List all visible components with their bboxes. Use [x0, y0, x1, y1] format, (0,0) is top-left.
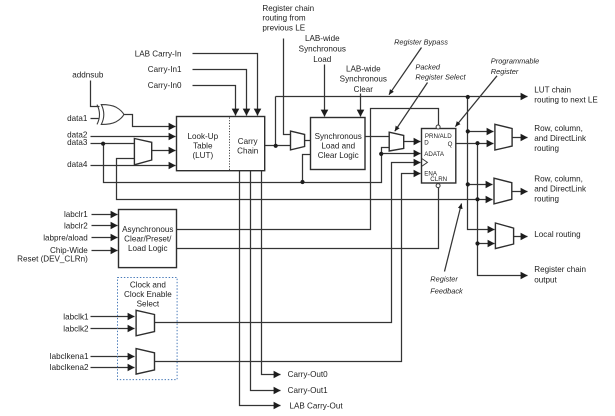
svg-text:Feedback: Feedback — [430, 286, 463, 295]
svg-text:LAB-wide: LAB-wide — [346, 64, 381, 73]
svg-text:LAB-wide: LAB-wide — [305, 34, 340, 43]
svg-text:Table: Table — [193, 142, 213, 151]
svg-text:labclk2: labclk2 — [63, 324, 89, 333]
svg-text:data1: data1 — [67, 114, 88, 123]
svg-text:routing: routing — [534, 195, 559, 204]
svg-text:routing from: routing from — [262, 14, 305, 23]
svg-text:Packed: Packed — [415, 63, 441, 72]
svg-text:LAB Carry-In: LAB Carry-In — [135, 49, 182, 58]
svg-text:Chip-Wide: Chip-Wide — [50, 246, 88, 255]
svg-text:LUT chain: LUT chain — [534, 86, 571, 95]
svg-text:addnsub: addnsub — [72, 71, 104, 80]
svg-text:Synchronous: Synchronous — [315, 132, 362, 141]
svg-text:routing to next LE: routing to next LE — [534, 96, 598, 105]
svg-text:Register: Register — [430, 274, 458, 283]
svg-text:Row, column,: Row, column, — [534, 124, 583, 133]
svg-text:data4: data4 — [67, 160, 88, 169]
svg-text:labclr2: labclr2 — [64, 222, 88, 231]
svg-text:Clear/Preset/: Clear/Preset/ — [124, 234, 172, 243]
svg-text:Look-Up: Look-Up — [188, 132, 219, 141]
svg-text:Synchronous: Synchronous — [340, 75, 387, 84]
svg-text:Clock and: Clock and — [130, 280, 166, 289]
svg-text:Register Bypass: Register Bypass — [394, 38, 448, 47]
svg-text:LAB Carry-Out: LAB Carry-Out — [290, 401, 344, 410]
svg-text:Register chain: Register chain — [262, 4, 314, 13]
svg-text:labclr1: labclr1 — [64, 210, 88, 219]
svg-text:Register Select: Register Select — [415, 72, 466, 81]
svg-text:labclkena2: labclkena2 — [50, 363, 89, 372]
svg-text:Clock Enable: Clock Enable — [124, 290, 172, 299]
svg-text:output: output — [534, 275, 557, 284]
svg-text:Select: Select — [137, 300, 160, 309]
svg-text:Clear: Clear — [354, 85, 374, 94]
svg-text:Row, column,: Row, column, — [534, 174, 583, 183]
svg-text:routing: routing — [534, 144, 559, 153]
svg-text:Clear Logic: Clear Logic — [318, 151, 359, 160]
svg-text:Synchronous: Synchronous — [299, 45, 346, 54]
svg-text:Reset (DEV_CLRn): Reset (DEV_CLRn) — [17, 255, 88, 264]
svg-text:Programmable: Programmable — [491, 57, 539, 66]
svg-text:Chain: Chain — [237, 146, 258, 155]
svg-text:Carry-In0: Carry-In0 — [148, 81, 182, 90]
svg-text:and DirectLink: and DirectLink — [534, 134, 587, 143]
svg-text:labpre/aload: labpre/aload — [43, 233, 88, 242]
svg-text:Carry-Out0: Carry-Out0 — [288, 370, 329, 379]
svg-text:labclk1: labclk1 — [63, 312, 89, 321]
svg-text:Register: Register — [491, 67, 519, 76]
svg-text:Q: Q — [448, 141, 453, 148]
svg-text:ADATA: ADATA — [424, 151, 445, 158]
svg-text:previous LE: previous LE — [262, 23, 305, 32]
svg-text:(LUT): (LUT) — [192, 151, 213, 160]
svg-text:Load: Load — [313, 55, 331, 64]
svg-text:Register chain: Register chain — [534, 265, 586, 274]
svg-text:Carry-In1: Carry-In1 — [148, 65, 182, 74]
svg-text:Local routing: Local routing — [534, 230, 580, 239]
svg-text:and DirectLink: and DirectLink — [534, 185, 587, 194]
svg-text:CLRN: CLRN — [430, 176, 447, 183]
svg-text:data3: data3 — [67, 138, 88, 147]
svg-text:labclkena1: labclkena1 — [50, 352, 89, 361]
svg-text:PRN/ALD: PRN/ALD — [425, 133, 452, 140]
svg-text:Carry-Out1: Carry-Out1 — [288, 386, 329, 395]
svg-text:Load and: Load and — [321, 142, 355, 151]
svg-text:Asynchronous: Asynchronous — [122, 225, 173, 234]
svg-text:D: D — [424, 139, 429, 146]
svg-text:Load Logic: Load Logic — [128, 244, 168, 253]
svg-text:Carry: Carry — [238, 137, 259, 146]
